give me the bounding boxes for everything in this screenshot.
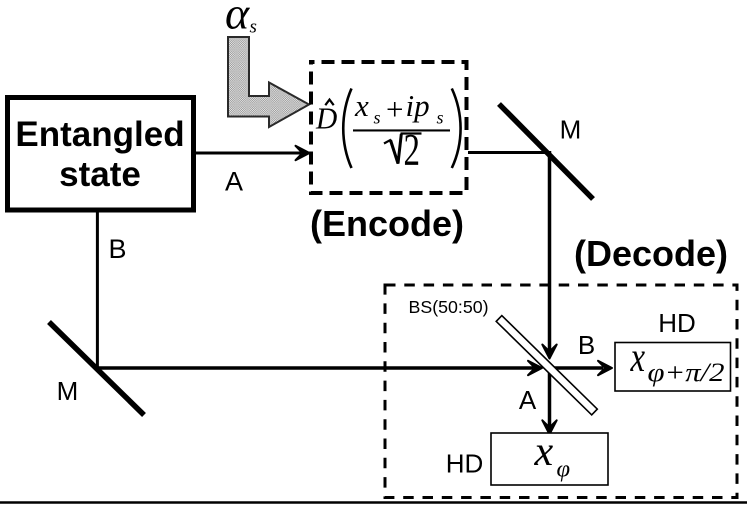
svg-text:B: B bbox=[578, 330, 595, 360]
svg-text:φ+π/2: φ+π/2 bbox=[648, 358, 725, 387]
svg-text:x: x bbox=[354, 88, 369, 123]
svg-text:(Encode): (Encode) bbox=[310, 203, 464, 244]
svg-text:s: s bbox=[437, 108, 444, 128]
svg-text:φ: φ bbox=[557, 456, 571, 483]
svg-text:HD: HD bbox=[658, 308, 696, 338]
svg-text:x: x bbox=[630, 334, 646, 381]
svg-text:HD: HD bbox=[446, 449, 484, 479]
svg-text:ip: ip bbox=[406, 88, 430, 123]
svg-text:s: s bbox=[250, 17, 257, 38]
svg-text:α: α bbox=[225, 0, 250, 39]
svg-text:B: B bbox=[108, 234, 126, 264]
svg-text:BS(50:50): BS(50:50) bbox=[409, 297, 489, 317]
svg-text:(Decode): (Decode) bbox=[574, 233, 728, 274]
svg-text:x: x bbox=[534, 429, 554, 475]
svg-text:M: M bbox=[57, 376, 79, 406]
svg-text:state: state bbox=[59, 155, 141, 194]
svg-text:s: s bbox=[374, 108, 381, 128]
svg-text:2: 2 bbox=[404, 125, 421, 175]
svg-text:D: D bbox=[315, 101, 337, 136]
svg-text:A: A bbox=[225, 167, 243, 197]
svg-text:Entangled: Entangled bbox=[15, 115, 184, 154]
svg-text:M: M bbox=[560, 115, 582, 145]
svg-text:A: A bbox=[519, 385, 537, 415]
svg-text:+: + bbox=[386, 92, 403, 127]
